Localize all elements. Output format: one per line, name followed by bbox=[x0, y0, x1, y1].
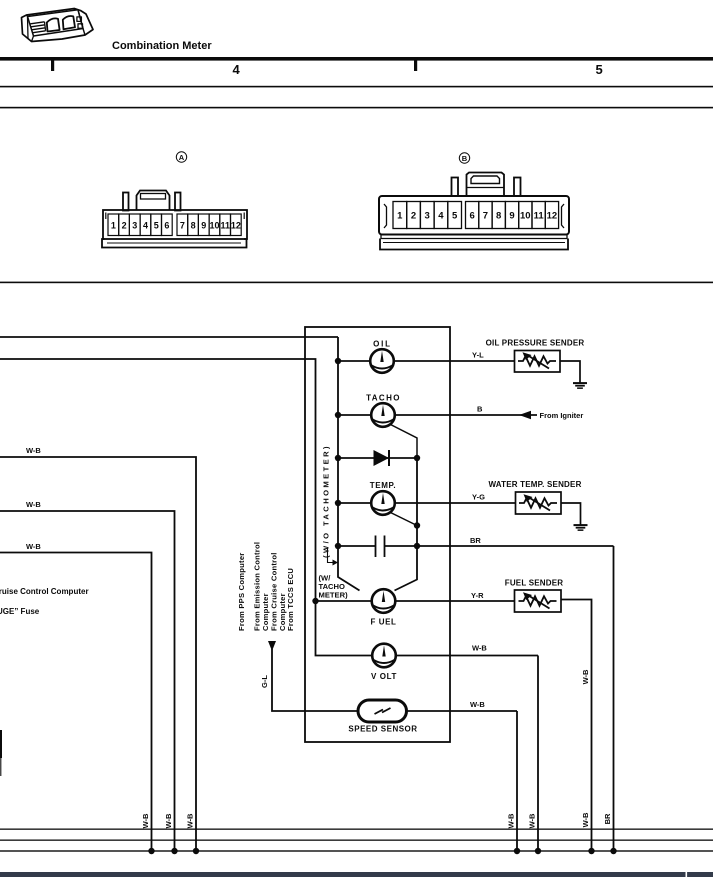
bottom bus wire 1 bbox=[0, 829, 713, 830]
junction node x517 bbox=[514, 848, 520, 854]
node TEMP-diagonal/right branch bbox=[414, 522, 420, 528]
svg-text:OIL: OIL bbox=[373, 340, 392, 349]
svg-text:W-B: W-B bbox=[141, 813, 150, 828]
partial component at left page edge bbox=[0, 730, 2, 758]
svg-text:6: 6 bbox=[164, 221, 169, 231]
svg-text:W-B: W-B bbox=[26, 542, 41, 551]
svg-text:“GAUGE” Fuse: “GAUGE” Fuse bbox=[0, 607, 40, 616]
svg-text:W-B: W-B bbox=[528, 813, 537, 828]
svg-text:9: 9 bbox=[509, 211, 514, 222]
svg-text:W-B: W-B bbox=[581, 812, 590, 827]
ruler tick mid bbox=[414, 57, 417, 71]
node bus/TEMP bbox=[335, 500, 341, 506]
wire sender to ground bbox=[561, 503, 581, 525]
connector B pin numbers bbox=[397, 211, 557, 222]
connector A pins 1-6 bbox=[108, 214, 172, 236]
connector B pins 1-5 bbox=[393, 202, 462, 229]
horizontal rule y285 bbox=[0, 282, 713, 284]
svg-text:BR: BR bbox=[470, 536, 481, 545]
svg-text:4: 4 bbox=[233, 62, 241, 77]
svg-text:OIL PRESSURE SENDER: OIL PRESSURE SENDER bbox=[486, 339, 585, 348]
svg-text:Y-R: Y-R bbox=[471, 591, 484, 600]
svg-text:7: 7 bbox=[483, 211, 488, 222]
connector B bbox=[379, 173, 569, 250]
connector B pins 6-12 bbox=[466, 202, 559, 229]
ground (oil pressure sender) bbox=[573, 382, 587, 389]
gauge OIL bbox=[370, 349, 394, 373]
horizontal rule y78 bbox=[0, 86, 713, 88]
svg-text:W-B: W-B bbox=[472, 644, 487, 653]
svg-text:9: 9 bbox=[201, 221, 206, 231]
combination meter box outline bbox=[305, 327, 450, 742]
water temp sender variable resistor bbox=[519, 494, 557, 510]
connector A left tab bbox=[123, 193, 129, 211]
svg-text:From TCCS ECU: From TCCS ECU bbox=[286, 568, 295, 631]
junction node x151 bbox=[148, 848, 154, 854]
connector B base bbox=[380, 239, 568, 250]
horizontal rule y97 bbox=[0, 107, 713, 109]
svg-text:5: 5 bbox=[452, 211, 458, 222]
svg-text:From Igniter: From Igniter bbox=[540, 411, 584, 420]
svg-text:W-B: W-B bbox=[470, 700, 485, 709]
wire speed sensor drop bbox=[516, 711, 518, 851]
connector A pin numbers bbox=[111, 221, 241, 231]
wire OIL row bbox=[338, 360, 515, 362]
wire W-B middle left bbox=[0, 511, 175, 851]
connector B circled label bbox=[459, 153, 469, 163]
connector B bottom strip bbox=[381, 235, 567, 239]
svg-text:METER): METER) bbox=[319, 591, 349, 600]
svg-text:Y-L: Y-L bbox=[472, 351, 484, 360]
svg-text:BR: BR bbox=[603, 813, 612, 824]
connector B inner notch left bbox=[384, 204, 387, 228]
ruler bar bbox=[0, 57, 713, 61]
svg-text:1: 1 bbox=[111, 221, 116, 231]
wire from left into meter (top, to internal bus) bbox=[0, 336, 338, 338]
svg-text:8: 8 bbox=[496, 211, 501, 222]
wire TEMP row bbox=[338, 502, 516, 504]
svg-text:5: 5 bbox=[154, 221, 159, 231]
wire W-B lower left bbox=[0, 553, 152, 852]
node W-tacho feed/FUEL bbox=[312, 598, 318, 604]
node diode/right branch bbox=[414, 455, 420, 461]
junction node x196 bbox=[193, 848, 199, 854]
svg-text:3: 3 bbox=[425, 211, 430, 222]
fuel sender variable resistor bbox=[519, 592, 557, 608]
bottom bus wire 3 bbox=[0, 850, 713, 851]
node bus/OIL bbox=[335, 358, 341, 364]
arrow to From Igniter bbox=[519, 411, 531, 419]
wire volt drop bbox=[537, 656, 539, 852]
svg-text:(W/O TACHOMETER): (W/O TACHOMETER) bbox=[322, 444, 331, 558]
pointer arrow W/O tachometer bbox=[328, 548, 334, 563]
wire from left into meter (second, W/ tachometer feed) bbox=[0, 359, 316, 601]
wire W-B upper left bbox=[0, 457, 196, 851]
svg-text:Cruise Control Computer: Cruise Control Computer bbox=[0, 587, 89, 596]
ground (water temp sender) bbox=[574, 524, 588, 531]
svg-text:4: 4 bbox=[438, 211, 444, 222]
svg-text:SPEED SENSOR: SPEED SENSOR bbox=[348, 725, 417, 734]
combination meter icon bbox=[22, 9, 94, 42]
junction node x538 bbox=[535, 848, 541, 854]
water temp sender box bbox=[516, 492, 562, 514]
node bus/TACHO bbox=[335, 412, 341, 418]
svg-text:From PPS Computer: From PPS Computer bbox=[237, 552, 246, 631]
wire TACHO diagonal to diode node bbox=[391, 425, 418, 459]
oil pressure sender box bbox=[515, 351, 561, 373]
svg-text:A: A bbox=[179, 153, 185, 162]
connector A base bbox=[102, 239, 247, 248]
svg-text:B: B bbox=[462, 154, 468, 163]
connector A body bbox=[103, 210, 247, 239]
arrow down from computer feeds bbox=[268, 641, 276, 651]
wire link FUEL node down to VOLT row bbox=[316, 601, 339, 656]
connector A bbox=[102, 191, 247, 248]
svg-text:F UEL: F UEL bbox=[370, 618, 396, 627]
svg-text:11: 11 bbox=[220, 221, 230, 231]
gauge FUEL bbox=[372, 589, 396, 613]
junction node x591 bbox=[588, 848, 594, 854]
node bus/capacitor bbox=[335, 543, 341, 549]
wire G-L down to speed sensor bbox=[272, 649, 358, 711]
wire fuel sender to W-B drop bbox=[561, 600, 592, 852]
svg-text:TEMP.: TEMP. bbox=[370, 481, 396, 490]
connector A right tab bbox=[175, 193, 181, 211]
connector B right tab bbox=[514, 178, 521, 197]
svg-text:W-B: W-B bbox=[26, 446, 41, 455]
svg-text:WATER TEMP. SENDER: WATER TEMP. SENDER bbox=[488, 480, 581, 489]
fuel sender box bbox=[515, 590, 562, 612]
speed sensor wire row bbox=[358, 710, 517, 712]
svg-text:Y-G: Y-G bbox=[472, 493, 485, 502]
svg-text:G-L: G-L bbox=[260, 675, 269, 688]
junction node x613 bbox=[610, 848, 616, 854]
svg-text:W-B: W-B bbox=[581, 669, 590, 684]
bottom bus wire 2 bbox=[0, 840, 713, 841]
node bus/diode bbox=[335, 455, 341, 461]
svg-text:2: 2 bbox=[122, 221, 127, 231]
svg-text:7: 7 bbox=[180, 221, 185, 231]
wire BR from capacitor out of box bbox=[385, 545, 614, 547]
svg-text:V OLT: V OLT bbox=[371, 672, 397, 681]
wire TEMP diagonal to right branch bbox=[391, 513, 418, 526]
ruler tick left bbox=[51, 57, 54, 71]
wire FUEL row bbox=[316, 600, 515, 602]
svg-text:4: 4 bbox=[143, 221, 148, 231]
svg-text:12: 12 bbox=[231, 221, 241, 231]
connector A pins 7-12 bbox=[177, 214, 241, 236]
svg-text:3: 3 bbox=[132, 221, 137, 231]
svg-text:2: 2 bbox=[411, 211, 416, 222]
svg-text:6: 6 bbox=[469, 211, 474, 222]
connector A corner mark right bbox=[243, 213, 245, 220]
connector A center latch bbox=[137, 191, 170, 211]
svg-text:B: B bbox=[477, 405, 483, 414]
node capacitor/right branch bbox=[414, 543, 420, 549]
svg-text:10: 10 bbox=[209, 221, 219, 231]
svg-text:W-B: W-B bbox=[164, 813, 173, 828]
svg-text:12: 12 bbox=[547, 211, 558, 222]
svg-text:W-B: W-B bbox=[26, 500, 41, 509]
svg-text:TACHO: TACHO bbox=[366, 394, 401, 403]
wire right branch vertical bbox=[395, 458, 418, 591]
connector B body bbox=[379, 196, 569, 235]
svg-text:W-B: W-B bbox=[186, 813, 195, 828]
connector B left tab bbox=[452, 178, 459, 197]
junction node x174 bbox=[171, 848, 177, 854]
svg-text:5: 5 bbox=[596, 62, 603, 77]
diode bbox=[374, 450, 390, 466]
wire capacitor row bbox=[338, 545, 376, 547]
svg-text:FUEL SENDER: FUEL SENDER bbox=[505, 579, 564, 588]
wire sender to ground bbox=[560, 361, 580, 383]
wire diode row bbox=[338, 457, 417, 459]
wire VOLT row bbox=[338, 655, 538, 657]
connector B center latch bbox=[467, 173, 505, 197]
gauge TACHO bbox=[371, 403, 395, 427]
wire BR drop bbox=[613, 546, 615, 851]
oil pressure sender variable resistor bbox=[518, 352, 556, 368]
gauge TEMP bbox=[371, 491, 395, 515]
internal bus vertical (W/O tachometer path) bbox=[338, 337, 360, 591]
svg-text:8: 8 bbox=[191, 221, 196, 231]
wire TACHO row (B to igniter) bbox=[338, 414, 537, 416]
connector A circled label bbox=[176, 152, 186, 162]
capacitor bbox=[376, 536, 385, 558]
gauge VOLT bbox=[372, 644, 396, 668]
connector A corner mark left bbox=[105, 213, 107, 220]
bottom navy bar bbox=[0, 872, 713, 877]
connector B inner notch right bbox=[562, 204, 565, 228]
speed sensor body bbox=[358, 700, 407, 722]
svg-text:11: 11 bbox=[534, 211, 545, 222]
svg-text:W-B: W-B bbox=[507, 813, 516, 828]
svg-text:10: 10 bbox=[520, 211, 531, 222]
svg-text:Combination Meter: Combination Meter bbox=[112, 40, 212, 52]
svg-text:1: 1 bbox=[397, 211, 403, 222]
